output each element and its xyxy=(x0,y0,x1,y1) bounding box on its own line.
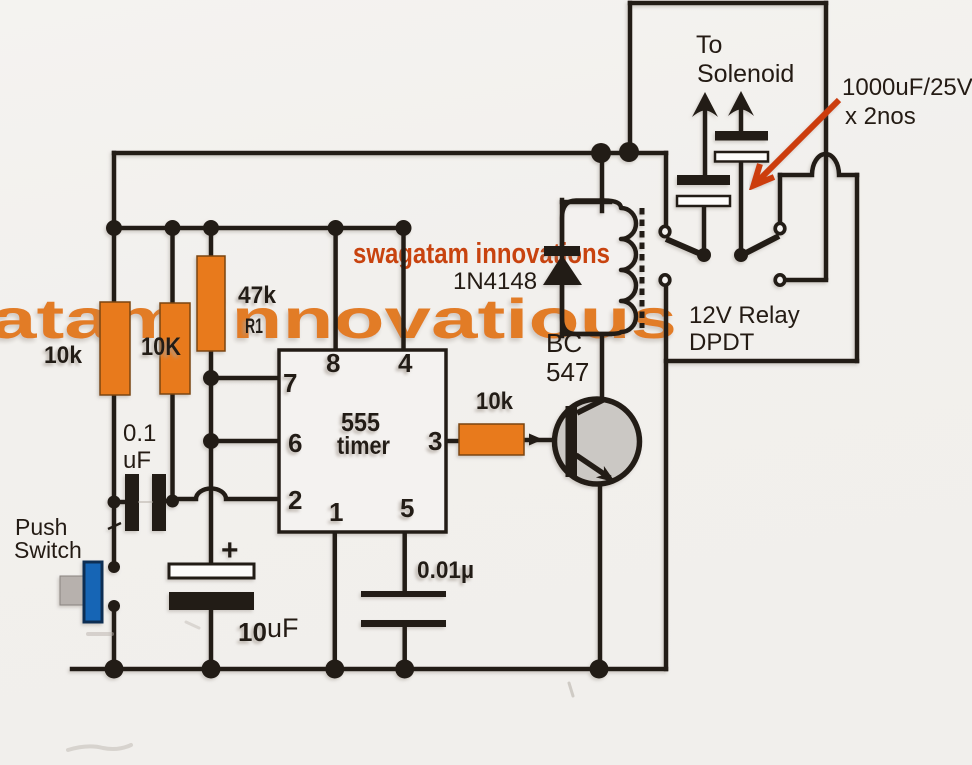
relay pole 1 common dot xyxy=(697,248,711,262)
wire arrow2 shaft xyxy=(739,110,744,131)
svg-text:BC: BC xyxy=(546,328,582,358)
svg-text:DPDT: DPDT xyxy=(689,329,755,356)
relay contact throw 2b (pole 2 lower) xyxy=(775,275,785,285)
svg-text:+: + xyxy=(221,534,239,567)
wire solenoid box top xyxy=(630,1,826,6)
wire pole1 contact feed xyxy=(664,153,669,224)
junction ground rail / emitter xyxy=(590,660,609,679)
wire relay box bottom xyxy=(666,359,857,364)
wire 0.1uF left xyxy=(114,500,125,505)
wire NO2 stub xyxy=(788,278,826,283)
switch contact bottom xyxy=(108,600,120,612)
wire coil top bar xyxy=(562,200,610,205)
junction pin 6 / threshold node xyxy=(203,433,219,449)
wire emitter xyxy=(598,480,603,669)
wire diode top xyxy=(560,200,565,247)
svg-text:uF: uF xyxy=(123,447,151,474)
svg-text:1: 1 xyxy=(329,497,343,527)
svg-text:6: 6 xyxy=(288,428,302,458)
faint scan smudges xyxy=(68,502,573,750)
arrowhead to solenoid output 2 xyxy=(728,91,754,116)
wire pin6 xyxy=(211,439,279,444)
wire switch bottom stub xyxy=(112,607,117,670)
wire solenoid box left xyxy=(628,3,633,150)
capacitor C4 1000uF/25V (left, on pole 1) xyxy=(677,175,730,185)
wire pin8 xyxy=(333,228,338,350)
relay contact throw 1a (pole 1 upper) xyxy=(660,226,670,236)
svg-text:12V Relay: 12V Relay xyxy=(689,302,800,329)
svg-text:3: 3 xyxy=(428,426,442,456)
svg-text:10k: 10k xyxy=(476,388,514,415)
svg-text:Switch: Switch xyxy=(14,537,82,563)
resistor R1 10k (left vertical) xyxy=(100,302,130,395)
wire bottom rail xyxy=(72,667,666,672)
relay actuator dotted link xyxy=(640,208,645,328)
wire 47k top xyxy=(209,228,214,258)
svg-text:Solenoid: Solenoid xyxy=(697,60,794,88)
svg-text:x 2nos: x 2nos xyxy=(845,103,916,130)
wire below 10k resistor xyxy=(112,394,117,504)
wire pin2 with hump xyxy=(173,489,280,499)
wire coil top feed xyxy=(600,153,605,200)
wire cap1 bottom to lever xyxy=(702,206,707,250)
svg-text:8: 8 xyxy=(326,348,340,378)
junction 0.1uF right / pin 2 trigger node xyxy=(166,495,179,508)
resistor R2 10K (second vertical) xyxy=(160,303,190,394)
svg-text:5: 5 xyxy=(400,493,414,523)
wire coil bottom bar xyxy=(562,332,610,337)
wire arrow1 shaft xyxy=(703,112,708,175)
svg-text:4: 4 xyxy=(398,348,413,378)
svg-text:R1: R1 xyxy=(245,315,263,338)
junction top supply / relay coil feed xyxy=(591,143,611,163)
resistor R3 47k "R1" (vertical) xyxy=(197,256,225,351)
svg-text:7: 7 xyxy=(283,368,297,398)
svg-text:10k: 10k xyxy=(44,342,83,369)
wire top horizontal V+ xyxy=(114,151,666,156)
svg-text:0.01µ: 0.01µ xyxy=(417,557,474,584)
junction ground rail / switch xyxy=(105,660,124,679)
wire rail vcc xyxy=(114,226,404,231)
wire pin5 bottom xyxy=(402,627,407,670)
junction V+ rail / R1-10k branch xyxy=(106,220,122,236)
transistor Q1 BC547 (NPN) xyxy=(529,399,640,484)
wire pin4 xyxy=(401,228,406,350)
svg-text:uF: uF xyxy=(267,613,299,643)
switch S1 push button actuator xyxy=(60,576,84,605)
wire pole2 feed xyxy=(778,175,783,221)
wire cap2 bottom to lever xyxy=(739,161,744,250)
relay pole 1 lever xyxy=(666,239,703,255)
svg-text:To: To xyxy=(696,31,722,59)
wire 47k bottom to 10uF xyxy=(209,349,214,564)
junction ground rail / 10uF xyxy=(202,660,221,679)
wire relay top with hump xyxy=(780,154,857,175)
wire pin7 xyxy=(211,376,279,381)
junction V+ rail / R2-10K branch xyxy=(165,220,181,236)
capacitor C5 1000uF/25V (right, on pole 2) xyxy=(715,131,768,141)
wire pin3 xyxy=(446,439,459,444)
wire relay box right xyxy=(855,175,860,361)
junction 0.1uF left / switch branch xyxy=(108,496,121,509)
relay pole 2 lever xyxy=(742,236,779,255)
wire switch top stub xyxy=(112,504,117,566)
op-amp/IC U1 555 timer body xyxy=(279,350,446,532)
junction top supply / solenoid box left xyxy=(619,142,639,162)
svg-text:547: 547 xyxy=(546,357,589,387)
svg-text:10K: 10K xyxy=(141,333,181,361)
svg-text:10: 10 xyxy=(238,617,267,647)
wire 10K resistor top xyxy=(170,228,175,305)
wire 0.1uF right xyxy=(166,499,173,504)
relay coil RL1 body fill xyxy=(562,201,636,335)
junction ground rail / pin 1 xyxy=(325,660,344,679)
svg-text:1N4148: 1N4148 xyxy=(453,268,537,295)
wire 10uF bottom xyxy=(209,610,214,670)
tick mark on switch wire xyxy=(108,523,121,529)
capacitor C1 0.1uF (two plates) xyxy=(125,474,139,531)
arrowhead to solenoid output 1 xyxy=(692,92,718,117)
resistor R4 10k (base drive, horizontal) xyxy=(459,424,524,455)
svg-text:0.1: 0.1 xyxy=(123,420,156,447)
capacitor C2 10uF electrolytic (plates) xyxy=(169,564,254,578)
junction ground rail / 0.01u xyxy=(395,660,414,679)
diode D1 1N4148 (flyback, cathode up) xyxy=(543,246,582,285)
svg-text:47k: 47k xyxy=(238,282,277,309)
relay coil RL1 outline with loops xyxy=(562,201,636,335)
relay contact throw 2a (pole 2 upper) xyxy=(775,223,785,233)
wire diode bottom xyxy=(560,284,565,336)
wire 10K resistor bottom xyxy=(170,393,175,501)
annotation arrow 1000uF xyxy=(754,100,840,186)
junction pin 7 / 47k bottom xyxy=(203,370,219,386)
svg-text:2: 2 xyxy=(288,485,302,515)
wire pin1 xyxy=(333,532,338,670)
junction V+ rail / R3-47k branch xyxy=(203,220,219,236)
wire pin5 top xyxy=(402,532,407,591)
relay contact throw 1b (pole 1 lower, to ground) xyxy=(660,275,670,285)
svg-text:1000uF/25V: 1000uF/25V xyxy=(842,74,972,101)
wire collector xyxy=(600,335,605,399)
relay pole 2 common dot xyxy=(734,248,748,262)
wire solenoid box right / NO2 feed xyxy=(824,3,829,278)
wire coil feed overshoot xyxy=(600,200,605,211)
wire left vertical top xyxy=(112,153,117,304)
svg-text:timer: timer xyxy=(337,432,390,460)
wire NC1 down to ground rail xyxy=(664,287,669,669)
wire base xyxy=(524,438,566,443)
capacitor C3 0.01uF (plates) xyxy=(361,591,446,597)
switch contact top xyxy=(108,561,120,573)
junction V+ rail / pin 4 xyxy=(396,220,412,236)
junction V+ rail / pin 8 xyxy=(328,220,344,236)
